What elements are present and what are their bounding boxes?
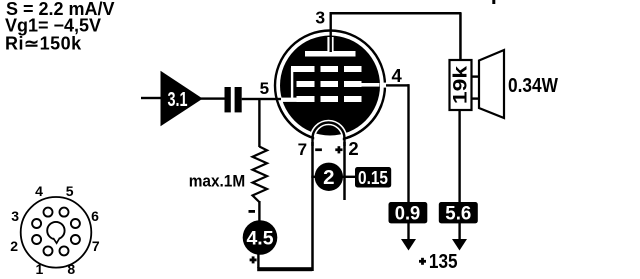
svg-text:5.6: 5.6 (445, 203, 471, 224)
outline gap at pin 4 exit (380, 83, 387, 88)
socket key notch (53, 238, 60, 244)
heater minus sign (315, 148, 322, 151)
svg-text:4.5: 4.5 (247, 227, 274, 249)
cathode point circle 2 V (311, 163, 343, 191)
wire cathode riser heater pin 7 lead (311, 142, 314, 271)
arrow down 5.6 (452, 239, 467, 251)
current box 5.6 mA (439, 202, 478, 224)
svg-text:2: 2 (10, 238, 18, 254)
anode lead core pin 3 (330, 13, 332, 52)
svg-text:2: 2 (348, 138, 358, 159)
svg-text:4: 4 (35, 183, 43, 199)
svg-text:3.1: 3.1 (168, 89, 188, 111)
socket pin hole 1 (44, 246, 53, 255)
wire battery to bottom rail (257, 254, 259, 268)
resistor max.1M zigzag (253, 147, 268, 203)
amplifier stage triangle 3.1 (161, 71, 203, 127)
wire triangle to capacitor (201, 97, 225, 99)
svg-text:5: 5 (260, 79, 269, 98)
svg-text:0.15: 0.15 (358, 168, 388, 188)
svg-text:3: 3 (11, 208, 19, 224)
heater pin 2 lead stub (343, 142, 346, 200)
scan tick top edge (492, 0, 495, 4)
internal rail g3 connection (291, 68, 293, 101)
svg-text:19k: 19k (450, 66, 472, 104)
current box 0.15 mA (355, 167, 391, 188)
wire input left (141, 97, 161, 99)
socket pin hole 4 (44, 208, 53, 217)
wire screen pin 4 horizontal (386, 84, 409, 86)
plus sign battery bottom (250, 256, 257, 263)
socket base circle (21, 197, 92, 268)
minus sign battery top (249, 210, 256, 213)
wire 19k down to 5.6 (458, 110, 460, 240)
socket pin hole 5 (60, 208, 69, 217)
socket pin hole 6 (71, 219, 80, 228)
svg-text:7: 7 (92, 238, 100, 254)
wire resistor to battery (258, 201, 260, 221)
socket pin hole 3 (32, 219, 41, 228)
screen pin 4 internal lead (360, 83, 380, 87)
grid g1 row dashes (297, 96, 362, 102)
anode lead halo pin 3 (327, 37, 333, 52)
tube envelope outline redraw bottom arc (279, 105, 382, 140)
wire screen down to 0.9 (407, 84, 409, 240)
resistor 19k box (450, 60, 472, 110)
grid g2 row dashes (297, 81, 362, 87)
svg-text:5: 5 (66, 183, 74, 199)
speaker horn (479, 50, 504, 118)
svg-text:0.9: 0.9 (395, 203, 421, 224)
heater plus sign (335, 146, 342, 153)
svg-text:6: 6 (91, 208, 99, 224)
svg-text:max.1M: max.1M (189, 172, 246, 191)
capacitor C coupling (225, 87, 242, 112)
svg-text:3: 3 (315, 8, 325, 28)
tick circle to 0.15 box (343, 176, 357, 178)
svg-text:8: 8 (67, 261, 75, 277)
wire down to resistor 19k (459, 13, 462, 61)
wire bottom rail (257, 267, 312, 271)
anode bar (305, 51, 356, 57)
wire capacitor to grid pin 5 (242, 98, 284, 100)
svg-text:Ri≃150k: Ri≃150k (5, 34, 82, 54)
current box 0.9 mA (389, 202, 428, 224)
speaker lead bottom (472, 97, 480, 99)
wire anode top (330, 12, 462, 15)
speaker lead top (472, 75, 480, 77)
socket pin hole 2 (32, 235, 41, 244)
tube V1 envelope outline (275, 31, 385, 141)
grid g3 row dashes (291, 66, 362, 72)
svg-text:4: 4 (392, 65, 403, 86)
cathode heater arch (313, 123, 345, 147)
svg-text:Vg1= −4,5V: Vg1= −4,5V (5, 16, 101, 36)
svg-text:2: 2 (323, 166, 334, 189)
socket key circle (47, 222, 64, 239)
svg-text:7: 7 (298, 140, 307, 159)
label +135 plus sign (419, 258, 426, 265)
socket pin hole 7 (71, 235, 80, 244)
tube V1 black disc (280, 36, 380, 136)
svg-text:1: 1 (36, 261, 44, 277)
grid pin 5 internal lead (281, 98, 297, 102)
arrow down 0.9 (401, 239, 416, 251)
white gap between heater legs (314, 136, 343, 152)
socket pin hole 8 (60, 246, 69, 255)
wire junction down to grid resistor (258, 99, 260, 147)
battery 4.5 V circle (243, 220, 278, 255)
svg-text:135: 135 (429, 250, 458, 273)
svg-text:0.34W: 0.34W (508, 74, 559, 97)
